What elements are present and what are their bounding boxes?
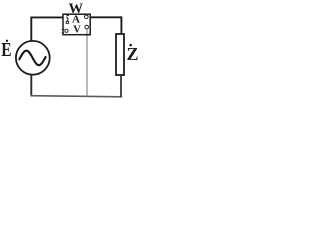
label E (phasor dot) <box>6 40 8 42</box>
polarity mark +/- (V-row) <box>62 28 65 33</box>
svg-text:Z: Z <box>127 44 139 64</box>
polarity mark (A-row): dash, coil arc, dot terminal <box>66 15 69 17</box>
label Z (phasor dot) <box>129 44 132 47</box>
svg-text:E: E <box>1 38 11 60</box>
wire: source bottom lead <box>30 75 32 97</box>
impedance Z: box <box>116 34 124 75</box>
svg-text:V: V <box>73 25 81 36</box>
terminal: V-row right circle <box>85 25 89 29</box>
AC source E: circle <box>16 41 50 75</box>
AC source E: sine wave <box>19 51 45 66</box>
wattmeter W: box <box>63 14 90 35</box>
terminal: A-row right circle <box>85 15 89 19</box>
wire: source top lead <box>30 17 32 41</box>
wire: bottom rail <box>31 96 123 97</box>
wire: Z bottom lead <box>120 75 122 97</box>
wire: Z top lead <box>120 16 122 34</box>
terminal: V-row left circle <box>65 29 68 32</box>
wire: top rail right segment <box>90 16 122 18</box>
wire: top rail left segment <box>31 16 63 18</box>
wattmeter box bottom edge (re-stroke over wire crossing) <box>83 34 90 36</box>
wire: voltage coil down lead <box>86 29 88 96</box>
